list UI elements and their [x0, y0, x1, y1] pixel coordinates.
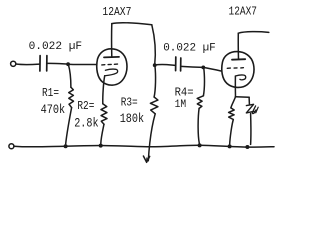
- wire C1 to node A: [47, 62, 68, 65]
- resistor R3 180k (zigzag): [150, 97, 158, 114]
- wire V2 cathode down to node D: [234, 76, 236, 97]
- node A (junction dot at grid of V1 / R1): [66, 62, 70, 66]
- svg-text:12AX7: 12AX7: [102, 6, 131, 19]
- junction dot R2/ground: [99, 144, 103, 148]
- capacitor C1 0.022uF: [39, 56, 41, 71]
- ground terminal (bottom left): [9, 144, 14, 149]
- wire input to C1: [16, 63, 39, 66]
- V2 cathode: [235, 75, 245, 80]
- wire R3 from node B down: [154, 66, 155, 97]
- svg-text:12AX7: 12AX7: [229, 6, 258, 19]
- wire R3 down crossing ground rail: [148, 114, 155, 161]
- wire node A to V1 grid: [68, 63, 96, 65]
- V1 plate lead up: [111, 24, 113, 57]
- cathode resistor (zigzag): [229, 108, 235, 120]
- wire R4 to ground rail: [198, 108, 199, 143]
- triode V2 envelope (12AX7): [222, 52, 254, 88]
- junction dot cathode-R/ground: [228, 144, 232, 148]
- svg-text:0.022 µF: 0.022 µF: [29, 41, 83, 53]
- svg-text:R2=: R2=: [77, 100, 94, 113]
- wire node A down to R1: [68, 65, 71, 88]
- arrowhead (B+ off page, down): [143, 156, 149, 162]
- V2 grid (dashed): [227, 67, 243, 70]
- wire bypass capacitor to ground rail: [250, 114, 252, 145]
- svg-text:0.022 µF: 0.022 µF: [163, 42, 216, 54]
- wire V1 cathode down to R2: [103, 76, 105, 104]
- resistor R1 470k (zigzag): [69, 87, 74, 107]
- wire node C to V2 grid: [203, 67, 221, 71]
- capacitor C2 0.022uF: [175, 57, 177, 71]
- wire node B to C2: [155, 63, 175, 66]
- svg-text:180k: 180k: [120, 111, 144, 126]
- svg-text:R4=: R4=: [175, 87, 194, 100]
- triode V1 envelope (12AX7): [97, 49, 127, 85]
- junction dot bypass/ground: [245, 145, 249, 149]
- bypass capacitor (hatched scribble): [246, 104, 254, 113]
- ground rail wire: [14, 145, 274, 147]
- V1 grid (dashed): [102, 63, 118, 66]
- svg-text:2.8k: 2.8k: [74, 116, 98, 131]
- resistor R2 2.8k (zigzag): [101, 104, 107, 124]
- V1 cathode: [105, 69, 118, 76]
- svg-text:R1=: R1=: [42, 87, 59, 100]
- V1 plate bar: [104, 56, 119, 59]
- wire R1 to ground rail: [66, 108, 72, 144]
- wire bypass branch down: [248, 97, 250, 104]
- junction dot R1/ground: [64, 144, 68, 148]
- resistor R4 1M (zigzag): [197, 96, 203, 109]
- wire top rail down to node B: [152, 25, 155, 65]
- svg-text:R3=: R3=: [121, 96, 138, 109]
- wire C2 to node C: [181, 66, 203, 67]
- node C (junction C2 / R4 / V2 grid): [201, 66, 205, 70]
- node B (junction plate V1 / R3 / C2): [153, 63, 157, 67]
- node D bar (cathode junction to bypass branch): [236, 96, 250, 99]
- V2 plate wire to the right (to B+): [238, 32, 268, 34]
- V2 plate lead up: [237, 33, 239, 59]
- V2 plate bar: [232, 58, 245, 61]
- input terminal: [11, 61, 16, 66]
- wire cathode resistor to ground rail: [230, 120, 234, 145]
- wire V1 plate top rail to the right: [112, 23, 152, 25]
- wire node D down to cathode resistor: [231, 97, 236, 108]
- wire R2 to ground rail: [101, 124, 104, 143]
- junction dot R4/ground: [198, 143, 202, 147]
- svg-text:1M: 1M: [175, 99, 187, 111]
- svg-text:470k: 470k: [41, 102, 66, 117]
- wire node C down to R4: [203, 68, 204, 96]
